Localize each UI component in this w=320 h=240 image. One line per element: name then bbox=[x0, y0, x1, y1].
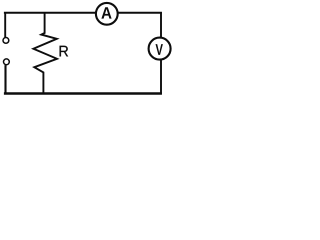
label R value bbox=[60, 46, 68, 57]
ammeter A bbox=[96, 3, 118, 25]
wire: left lower bbox=[4, 65, 6, 94]
terminal: upper input bbox=[3, 38, 9, 44]
resistor R bbox=[33, 12, 57, 94]
voltmeter V bbox=[149, 38, 171, 60]
terminal: lower input bbox=[4, 59, 10, 65]
wire: top right segment bbox=[117, 12, 162, 14]
wire: right lower bbox=[160, 59, 162, 94]
wire: right upper bbox=[160, 12, 162, 38]
wire: bottom bbox=[4, 92, 162, 95]
wire: top left segment bbox=[4, 12, 97, 14]
wire: left upper bbox=[4, 12, 6, 37]
